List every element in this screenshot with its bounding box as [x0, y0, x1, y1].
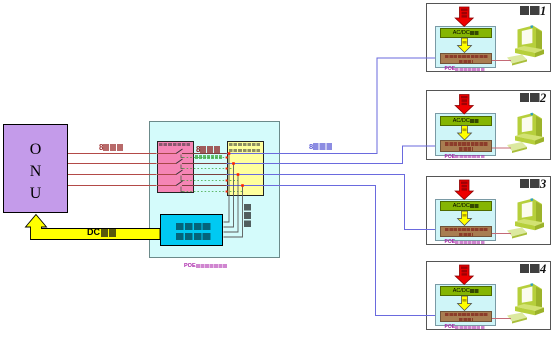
power wire P2 [224, 164, 234, 228]
label 只传数据信号线 green tiny [195, 155, 223, 159]
user4 computer icon [507, 283, 544, 323]
wire blue cat5 to user3 [227, 175, 436, 230]
junction dot edge E4 [226, 191, 228, 193]
junction dot edge E2 [226, 168, 228, 170]
wire red ONU row2 [68, 163, 157, 165]
user3 inner cyan box [435, 199, 496, 242]
user1 AC/DC module (green box) [440, 28, 492, 38]
user2 brown box text line2 理模块 [459, 147, 473, 151]
POE feeder module enclosure (big cyan box) [149, 121, 281, 258]
ONU label [3, 139, 68, 205]
label 分配模块 [176, 233, 211, 240]
user2 label 用户2 [520, 92, 546, 104]
user1 AC input red arrow [455, 7, 473, 27]
wire maroon row1 pink to yellow box [194, 153, 227, 155]
ethernet relay module (pink box) [157, 141, 194, 193]
user2 DC yellow arrow [458, 126, 472, 141]
junction dot J4 [241, 184, 244, 187]
label 8芯网线 red middle [196, 146, 221, 154]
user3 DC yellow arrow [458, 211, 472, 226]
label 电源线 vertical [244, 204, 251, 228]
user3 AC/DC module (green box) [440, 201, 492, 211]
user3 AC input red arrow [455, 180, 473, 200]
user4 inner cyan box [435, 284, 496, 327]
user2 brown box text line1 电源、数据信号合路处 [445, 142, 488, 146]
user3 brown box text line2 理模块 [459, 233, 473, 237]
user2 computer icon [507, 113, 544, 153]
power smart distribution module (bright cyan box) [160, 214, 223, 246]
user4 brown box text line1 电源、数据信号合路处 [445, 313, 488, 317]
wire maroon row4 pink to yellow box [194, 185, 227, 187]
power wire P4 [224, 186, 243, 238]
ONU box [3, 124, 68, 213]
user1 brown box text line2 理模块 [459, 60, 473, 64]
user1 power/data combine module (brown box) [440, 53, 492, 65]
junction dot J3 [237, 173, 240, 176]
wire red ONU row1 [68, 153, 157, 155]
junction dot edge E1 [226, 157, 228, 159]
user4 label POE分电模块用户端 magenta [445, 325, 486, 330]
wire green dashed row2 [183, 168, 234, 170]
wire green dashed row1 [183, 157, 229, 159]
label 8芯网线 red left [99, 144, 124, 152]
switch S4 in pink box [157, 181, 194, 192]
user2 outer box [426, 90, 551, 160]
user2 AC/DC module (green box) [440, 116, 492, 126]
user3 brown box text line1 电源、数据信号合路处 [445, 228, 488, 232]
label POE供电模块局端 magenta [184, 264, 227, 269]
switch S2 in pink box [157, 159, 194, 169]
user4 power/data combine module (brown box) [440, 311, 492, 323]
junction dot J1 [228, 152, 231, 155]
user3 power/data combine module (brown box) [440, 226, 492, 238]
user4 AC/DC module (green box) [440, 286, 492, 296]
user1 inner cyan box [435, 26, 496, 69]
user3 wire to computer [492, 233, 511, 235]
user2 power/data combine module (brown box) [440, 140, 492, 152]
user2 label POE分电模块用户端 magenta [445, 155, 486, 160]
user1 label POE分电模块用户端 magenta [445, 67, 486, 72]
user4 outer box [426, 261, 551, 331]
wire blue cat5 to user1 [227, 58, 436, 154]
DC input yellow arrow [26, 215, 161, 240]
junction dot J2 [232, 162, 235, 165]
wire green dashed row4 [183, 191, 243, 193]
power wire P1 [224, 154, 230, 223]
user1 outer box [426, 3, 551, 73]
wire maroon row3 pink to yellow box [194, 174, 227, 176]
user3 outer box [426, 176, 551, 246]
junction dot edge E3 [226, 180, 228, 182]
user3 computer icon [507, 198, 544, 238]
user2 inner cyan box [435, 113, 496, 156]
pink box title 以太网中继模块 [159, 143, 191, 147]
user1 DC yellow arrow [458, 38, 472, 53]
switch S1 in pink box [157, 149, 194, 158]
user3 label POE分电模块用户端 magenta [445, 240, 486, 245]
user3 label 用户3 [520, 178, 546, 190]
wire blue cat5 to user2 [227, 146, 436, 164]
user2 wire to computer [492, 147, 511, 149]
user1 computer icon [507, 25, 544, 65]
wire blue cat5 to user4 [227, 186, 436, 316]
wire maroon row2 pink to yellow box [194, 163, 227, 165]
wire red ONU row4 [68, 185, 157, 187]
wire red ONU row3 [68, 174, 157, 176]
user4 label 用户4 [520, 263, 546, 275]
user1 wire to computer [492, 60, 511, 62]
wire green dashed row3 [183, 180, 238, 182]
user4 wire to computer [492, 318, 511, 320]
user4 AC input red arrow [455, 265, 473, 285]
user4 brown box text line2 理模块 [459, 318, 473, 322]
label 8芯网线 blue [309, 143, 333, 151]
user2 AC input red arrow [455, 95, 473, 115]
label DC输入 [87, 228, 117, 237]
user1 label 用户1 [520, 5, 546, 17]
yellow box title line2 网开关控制模块 [229, 149, 261, 153]
label 电源智能 [176, 223, 211, 230]
yellow box title line1 电源合成及以太 [229, 143, 261, 147]
power wire P3 [224, 175, 239, 233]
power combine module (yellow box) [227, 141, 264, 196]
user4 DC yellow arrow [458, 296, 472, 311]
user1 brown box text line1 电源、数据信号合路处 [445, 55, 488, 59]
switch S3 in pink box [157, 170, 194, 181]
